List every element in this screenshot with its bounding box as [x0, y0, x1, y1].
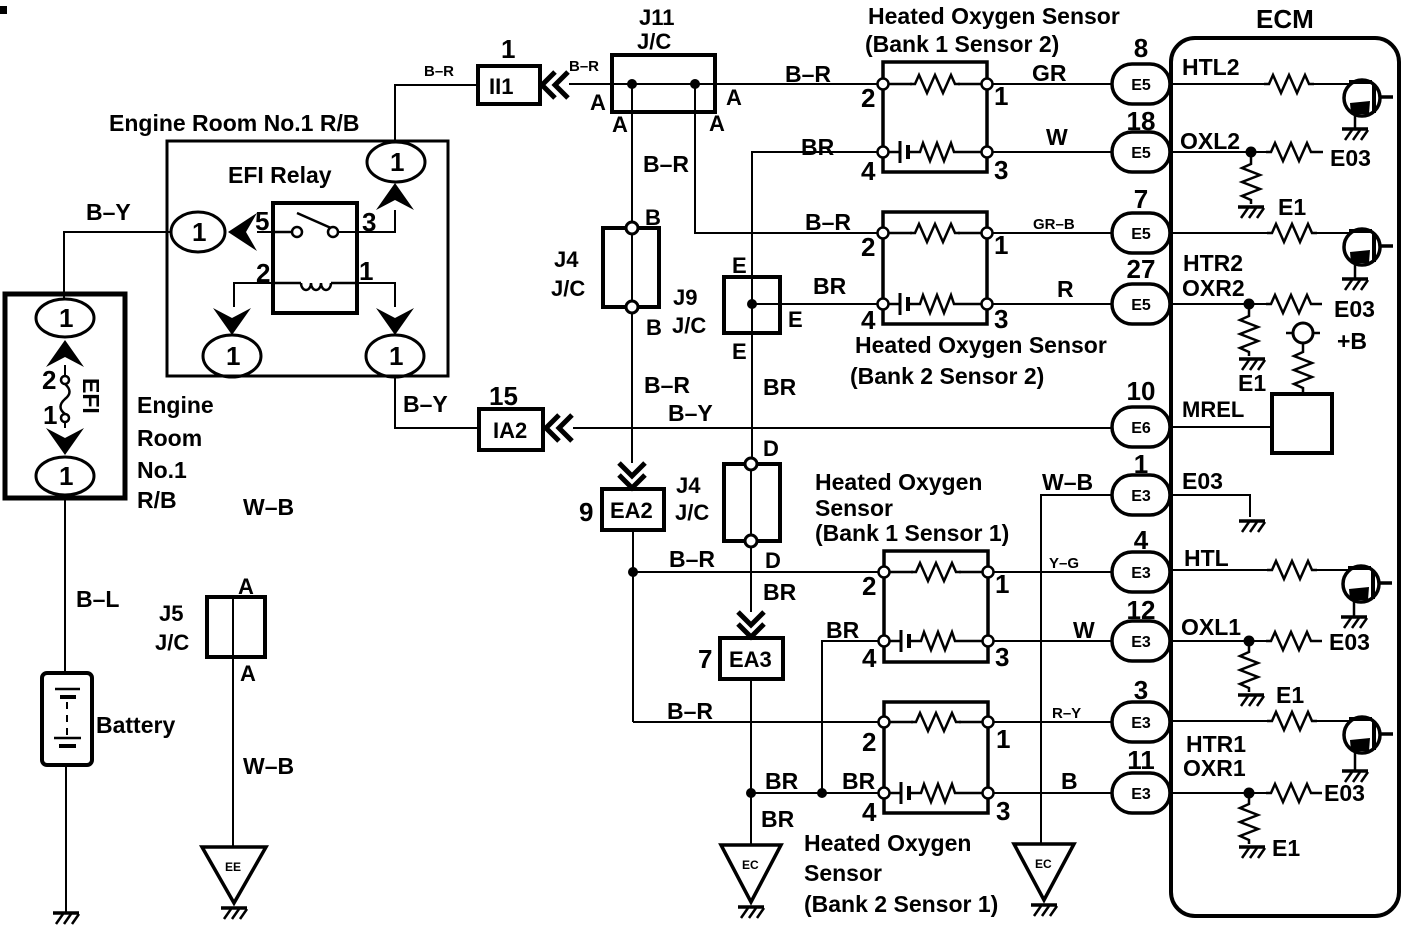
svg-text:R–Y: R–Y — [1052, 705, 1081, 722]
svg-text:W–B: W–B — [1042, 469, 1093, 495]
svg-text:BR: BR — [765, 768, 799, 794]
connector EA3 — [720, 638, 783, 679]
resistor (HTR1) — [1267, 712, 1317, 730]
sensor element (bank2 sensor1) — [890, 792, 900, 795]
svg-text:3: 3 — [994, 155, 1008, 185]
EFI fuse — [64, 365, 66, 376]
svg-text:1: 1 — [501, 34, 515, 64]
ground E1 (OXR1) — [1239, 847, 1265, 858]
svg-text:B: B — [645, 205, 661, 230]
svg-text:7: 7 — [1134, 184, 1148, 214]
svg-text:J4: J4 — [676, 473, 701, 498]
svg-text:J/C: J/C — [675, 500, 709, 525]
junction dot (OXR1) — [1244, 788, 1255, 799]
relay switch contacts — [273, 231, 292, 234]
svg-text:2: 2 — [861, 83, 875, 113]
svg-text:Heated Oxygen: Heated Oxygen — [815, 469, 982, 495]
transistor (HTL2 driver) — [1344, 80, 1393, 116]
wire relay pin3 up to oval — [338, 210, 395, 232]
EFI relay body — [273, 203, 357, 313]
svg-text:E1: E1 — [1238, 370, 1266, 396]
pull resistor (OXL1 to E1) — [1248, 641, 1251, 648]
resistor (OXL2) — [1266, 143, 1316, 161]
svg-text:ECM: ECM — [1256, 4, 1314, 34]
wire BR branch up to bank1 sensor1 pin4 — [822, 641, 884, 793]
E03 circuit: wire pin1 to ground — [1170, 495, 1250, 517]
ECM block — [1171, 38, 1399, 916]
svg-text:1: 1 — [59, 303, 73, 333]
junction dot (J11 left) — [627, 79, 637, 89]
resistor (HTR2) — [1267, 224, 1317, 242]
wire B-R II1 to bank1 sensor2 pin2 — [569, 83, 883, 85]
connector IA2 — [479, 409, 543, 450]
OXL1 circuit: wire pin12 — [1170, 640, 1266, 642]
junction dot (J9) — [747, 299, 757, 309]
svg-text:1: 1 — [1134, 449, 1148, 479]
svg-text:8: 8 — [1134, 33, 1148, 63]
ground (HTL2 driver) — [1342, 129, 1368, 140]
junction dot (OXL1) — [1244, 636, 1255, 647]
svg-text:3: 3 — [996, 796, 1010, 826]
svg-text:B–Y: B–Y — [668, 400, 713, 426]
svg-text:D: D — [763, 436, 779, 461]
junction connector J4 J/C (lower, pin D) — [724, 464, 780, 541]
svg-text:Heated Oxygen Sensor: Heated Oxygen Sensor — [868, 3, 1120, 29]
wire relay pin1 down — [357, 283, 395, 307]
svg-text:HTR1: HTR1 — [1186, 731, 1246, 757]
svg-text:J9: J9 — [673, 285, 697, 310]
pull resistor (OXL2 to E1) — [1250, 152, 1253, 160]
svg-text:B–Y: B–Y — [403, 391, 448, 417]
J5 J/C junction connector — [207, 597, 265, 657]
svg-text:J4: J4 — [554, 247, 579, 272]
svg-text:(Bank 1 Sensor 2): (Bank 1 Sensor 2) — [865, 31, 1059, 57]
ECM pin 3 oval E3 — [1112, 702, 1170, 742]
svg-text:B: B — [1061, 768, 1078, 794]
svg-text:W–B: W–B — [243, 753, 294, 779]
svg-text:J/C: J/C — [637, 29, 671, 54]
svg-text:J5: J5 — [159, 601, 183, 626]
svg-text:HTL: HTL — [1184, 545, 1229, 571]
svg-text:HTR2: HTR2 — [1183, 250, 1243, 276]
arrow down (pin 2) — [213, 308, 251, 335]
connector oval 1 (relay top right) — [367, 142, 425, 182]
pull resistor (OXR2 to E1) — [1248, 304, 1251, 312]
svg-text:EFI Relay: EFI Relay — [228, 162, 332, 188]
transistor (HTR2 driver) — [1344, 229, 1393, 265]
svg-text:A: A — [590, 90, 606, 115]
heated oxygen sensor (Bank 1 Sensor 1) — [884, 551, 988, 662]
svg-text:EA2: EA2 — [610, 498, 653, 523]
ground EC (left) — [721, 845, 781, 902]
ground (battery) — [53, 913, 79, 924]
battery — [42, 673, 92, 765]
pull resistor (OXR1 to E1) — [1248, 793, 1251, 800]
ground (E03 pin1) — [1239, 521, 1265, 532]
arrow down (pin 1) — [376, 308, 414, 335]
resistor (+B to MREL coil) — [1302, 343, 1305, 348]
resistor (HTL2) — [1264, 75, 1314, 93]
svg-text:IA2: IA2 — [493, 418, 527, 443]
svg-text:A: A — [240, 661, 256, 686]
sensor pins (bank2 sensor1) — [879, 717, 890, 728]
svg-text:3: 3 — [1134, 675, 1148, 705]
svg-text:E1: E1 — [1276, 682, 1304, 708]
junction dot (BR branch) — [817, 788, 827, 798]
svg-text:E03: E03 — [1329, 629, 1370, 655]
MREL relay coil box — [1272, 394, 1332, 453]
svg-text:E: E — [788, 307, 803, 332]
svg-text:OXR1: OXR1 — [1183, 755, 1246, 781]
ground EC (right) — [1014, 844, 1074, 900]
ground (HTR1 driver) — [1342, 771, 1368, 782]
svg-text:D: D — [765, 548, 781, 573]
Engine Room No.1 R/B fuse box (left) — [5, 294, 125, 498]
wire BR J9 to bank2 sensor2 pin4 — [780, 303, 883, 305]
svg-text:Engine Room No.1 R/B: Engine Room No.1 R/B — [109, 110, 359, 136]
arrow up (pin 3) — [376, 183, 414, 210]
wire B-L fuse box to battery — [64, 495, 66, 673]
HTL circuit: wire pin4 to driver — [1170, 569, 1267, 571]
arrow down (to bottom oval) — [46, 428, 84, 455]
junction connector J4 J/C (upper) — [603, 228, 659, 307]
svg-text:BR: BR — [763, 374, 797, 400]
OXR2 circuit: wire pin27 — [1170, 303, 1266, 305]
wire BR J4 D down to EA3 — [750, 547, 752, 612]
svg-text:4: 4 — [862, 797, 877, 827]
svg-text:EA3: EA3 — [729, 647, 772, 672]
svg-text:(Bank 1 Sensor 1): (Bank 1 Sensor 1) — [815, 520, 1009, 546]
ECM pin 1 oval E3 — [1112, 475, 1170, 515]
svg-text:OXL2: OXL2 — [1180, 128, 1240, 154]
svg-text:2: 2 — [862, 571, 876, 601]
svg-text:18: 18 — [1127, 106, 1156, 136]
svg-text:(Bank 2 Sensor 1): (Bank 2 Sensor 1) — [804, 891, 998, 917]
svg-text:E3: E3 — [1131, 786, 1151, 803]
svg-text:E3: E3 — [1131, 634, 1151, 651]
resistor (OXL1) — [1266, 632, 1316, 650]
svg-text:GR–B: GR–B — [1033, 216, 1075, 233]
svg-text:J11: J11 — [639, 5, 675, 30]
svg-text:A: A — [612, 112, 628, 137]
svg-text:W: W — [1046, 124, 1068, 150]
double arrow down (EA2) — [619, 463, 645, 488]
svg-text:B–R: B–R — [785, 61, 831, 87]
ground EE — [202, 847, 266, 903]
wire battery to ground — [65, 765, 67, 912]
svg-text:BR: BR — [813, 273, 847, 299]
heater resistor (bank1 sensor1) — [911, 563, 961, 581]
heated oxygen sensor (Bank 2 Sensor 1) — [884, 702, 988, 813]
wire B-Y from EFI relay left pin to fuse box — [64, 232, 171, 300]
wire B-R EA2 to sensors — [632, 530, 634, 722]
sensor pins (bank2 sensor2) — [878, 228, 889, 239]
wire relay pin5 to oval — [257, 231, 291, 233]
wire GR-B pin1 to ECM pin 7 — [992, 232, 1112, 234]
svg-text:3: 3 — [994, 304, 1008, 334]
resistor (OXR1) — [1266, 784, 1316, 802]
svg-text:BR: BR — [763, 579, 797, 605]
svg-text:Sensor: Sensor — [815, 495, 893, 521]
arrow left (pin 5) — [228, 213, 257, 251]
svg-text:(Bank 2 Sensor 2): (Bank 2 Sensor 2) — [850, 363, 1044, 389]
sensor element (bank1 sensor2) — [889, 151, 899, 154]
svg-text:4: 4 — [862, 643, 877, 673]
svg-text:W: W — [1073, 617, 1095, 643]
wire B-R J4 down to EA2 — [631, 313, 633, 463]
sensor element (bank1 sensor1) — [890, 640, 900, 643]
sensor pins (bank1 sensor2) — [878, 79, 889, 90]
svg-text:3: 3 — [995, 642, 1009, 672]
HTR1 circuit: wire pin3 to driver — [1170, 720, 1267, 722]
connector oval 1 (fuse box top) — [36, 299, 94, 337]
svg-text:2: 2 — [42, 365, 56, 395]
connector II1 — [478, 66, 540, 104]
svg-text:R/B: R/B — [137, 487, 177, 513]
heated oxygen sensor (Bank 2 Sensor 2) — [883, 212, 987, 324]
svg-text:2: 2 — [861, 232, 875, 262]
ground (HTR2 driver) — [1342, 279, 1368, 290]
svg-text:Y–G: Y–G — [1049, 555, 1079, 572]
relay coil — [273, 282, 301, 285]
svg-text:R: R — [1057, 276, 1074, 302]
svg-text:OXL1: OXL1 — [1181, 614, 1241, 640]
resistor (HTL) — [1267, 561, 1317, 579]
svg-text:E03: E03 — [1182, 468, 1223, 494]
MREL circuit: wire pin10 — [1170, 426, 1272, 428]
svg-text:E3: E3 — [1131, 715, 1151, 732]
svg-text:Battery: Battery — [96, 712, 175, 738]
svg-text:W–B: W–B — [243, 494, 294, 520]
sensor pins (bank1 sensor1) — [879, 567, 890, 578]
transistor (HTR1 driver) — [1344, 717, 1393, 753]
svg-text:B–R: B–R — [669, 546, 715, 572]
heated oxygen sensor (Bank 1 Sensor 2) — [883, 62, 987, 172]
svg-text:E03: E03 — [1334, 296, 1375, 322]
ECM pin 4 oval E3 — [1112, 552, 1170, 592]
svg-text:Engine: Engine — [137, 392, 214, 418]
svg-text:2: 2 — [862, 727, 876, 757]
svg-text:12: 12 — [1127, 595, 1156, 625]
connector oval 1 (fuse box bottom) — [36, 457, 94, 495]
HTR2 circuit: wire pin7 to driver — [1170, 232, 1267, 234]
arrow up (into oval) — [46, 340, 84, 367]
svg-text:E5: E5 — [1131, 297, 1151, 314]
svg-text:BR: BR — [826, 617, 860, 643]
svg-text:B–R: B–R — [667, 698, 713, 724]
sensor element (bank2 sensor2) — [889, 303, 899, 306]
svg-text:1: 1 — [59, 461, 73, 491]
svg-text:E: E — [732, 339, 747, 364]
HTL2 circuit: wire pin8 to driver — [1170, 83, 1264, 85]
connector oval 1 (relay bottom right) — [366, 335, 424, 377]
svg-text:E3: E3 — [1131, 488, 1151, 505]
wire B-R J11 left dot down to J4 — [631, 84, 633, 223]
double arrow (IA2) — [546, 415, 572, 441]
svg-text:E1: E1 — [1278, 194, 1306, 220]
wire Y-G pin1 to ECM pin 4 — [993, 571, 1112, 573]
svg-text:GR: GR — [1032, 60, 1067, 86]
wire BR J9 down to J4 D — [751, 333, 753, 459]
svg-text:E03: E03 — [1330, 145, 1371, 171]
wire GR pin1 to ECM pin 8 — [992, 83, 1112, 85]
Engine Room No.1 R/B relay box — [167, 141, 448, 376]
wire R pin3 to ECM pin 27 — [992, 303, 1112, 305]
svg-text:1: 1 — [994, 81, 1008, 111]
heater resistor (bank1 sensor2) — [910, 75, 960, 93]
svg-text:E6: E6 — [1131, 420, 1151, 437]
junction dot (BR node) — [746, 788, 756, 798]
ECM pin 12 oval E3 — [1112, 621, 1170, 661]
svg-text:Heated Oxygen Sensor: Heated Oxygen Sensor — [855, 332, 1107, 358]
heater resistor (bank2 sensor1) — [911, 713, 961, 731]
svg-text:15: 15 — [489, 381, 518, 411]
heater resistor (bank2 sensor2) — [910, 224, 960, 242]
svg-text:J/C: J/C — [155, 630, 189, 655]
svg-text:9: 9 — [579, 497, 593, 527]
ECM pin 11 oval E3 — [1112, 773, 1170, 813]
ECM pin 7 oval E5 — [1112, 213, 1170, 253]
svg-text:1: 1 — [996, 724, 1010, 754]
svg-text:1: 1 — [192, 217, 206, 247]
ECM pin 10 oval E6 — [1112, 407, 1170, 447]
OXL2 circuit: wire pin18 — [1170, 151, 1266, 153]
svg-text:BR: BR — [761, 806, 795, 832]
OXR1 circuit: wire pin11 — [1170, 792, 1266, 794]
svg-text:EC: EC — [742, 858, 759, 872]
double arrow (II1) — [542, 72, 568, 98]
wire B-Y IA2 to ECM MREL pin — [573, 427, 1112, 429]
svg-text:1: 1 — [994, 230, 1008, 260]
svg-text:J/C: J/C — [672, 313, 706, 338]
svg-text:BR: BR — [801, 134, 835, 160]
ECM pin 18 oval E5 — [1112, 132, 1170, 172]
svg-text:A: A — [726, 85, 742, 110]
svg-text:E1: E1 — [1272, 835, 1300, 861]
svg-text:Heated Oxygen: Heated Oxygen — [804, 830, 971, 856]
svg-text:4: 4 — [861, 156, 876, 186]
wire W-B ECM pin1 to EC ground — [1041, 495, 1112, 844]
svg-text:B–R: B–R — [424, 63, 454, 80]
junction dot (OXR2) — [1244, 299, 1255, 310]
svg-text:J/C: J/C — [551, 276, 585, 301]
wire B-Y relay to IA2 — [395, 377, 479, 428]
svg-text:Sensor: Sensor — [804, 860, 882, 886]
double arrow down (EA3) — [738, 612, 764, 637]
ground E1 (OXL2) — [1238, 207, 1264, 218]
wire BR node to bank2 sensor1 pin4 — [751, 792, 884, 794]
svg-text:10: 10 — [1127, 376, 1156, 406]
svg-text:E03: E03 — [1324, 780, 1365, 806]
svg-text:B–L: B–L — [76, 586, 119, 612]
ground E1 (OXR2) — [1239, 359, 1265, 370]
svg-text:Room: Room — [137, 425, 202, 451]
wire B-R relay top oval to II1 — [395, 85, 478, 142]
svg-text:7: 7 — [698, 644, 712, 674]
svg-text:B: B — [646, 315, 662, 340]
svg-text:1: 1 — [995, 569, 1009, 599]
svg-text:A: A — [709, 111, 725, 136]
svg-text:EC: EC — [1035, 857, 1052, 871]
ECM pin 8 oval E5 — [1112, 64, 1170, 104]
svg-text:27: 27 — [1127, 254, 1156, 284]
svg-text:1: 1 — [359, 256, 373, 286]
svg-text:BR: BR — [842, 768, 876, 794]
junction dot (B-R node) — [628, 567, 638, 577]
ground (HTL driver) — [1341, 617, 1367, 628]
svg-text:HTL2: HTL2 — [1182, 54, 1240, 80]
svg-text:No.1: No.1 — [137, 457, 187, 483]
svg-text:E: E — [732, 253, 747, 278]
wire B pin3 to ECM pin 11 — [993, 792, 1112, 794]
connector EA2 — [602, 489, 664, 530]
svg-text:OXR2: OXR2 — [1182, 275, 1245, 301]
svg-text:4: 4 — [1134, 525, 1149, 555]
svg-text:A: A — [238, 574, 254, 599]
svg-text:E5: E5 — [1131, 145, 1151, 162]
svg-text:B–R: B–R — [805, 209, 851, 235]
ECM pin 27 oval E5 — [1112, 284, 1170, 324]
junction connector J11 J/C — [612, 55, 715, 112]
svg-text:MREL: MREL — [1182, 397, 1244, 422]
svg-text:EE: EE — [225, 860, 241, 874]
wire W-B J5 to EE ground — [232, 657, 234, 847]
resistor (OXR2) — [1266, 295, 1316, 313]
svg-text:B–R: B–R — [644, 372, 690, 398]
ground E1 (OXL1) — [1238, 695, 1264, 706]
connector oval 1 (relay bottom left) — [203, 335, 261, 377]
wire W pin3 to ECM pin 12 — [993, 640, 1112, 642]
svg-text:1: 1 — [43, 400, 57, 430]
svg-text:EFI: EFI — [78, 378, 104, 414]
connector oval 1 (relay left) — [171, 212, 225, 252]
wire B-R to bank2 sensor1 pin2 — [633, 721, 884, 723]
wire relay pin2 down — [234, 283, 273, 307]
svg-text:1: 1 — [389, 341, 403, 371]
junction dot (J11 right) — [690, 79, 700, 89]
svg-text:+B: +B — [1337, 328, 1367, 354]
svg-text:B–R: B–R — [569, 58, 599, 75]
wire EA3 down to EC ground — [750, 679, 752, 845]
junction dot (OXL2) — [1246, 147, 1257, 158]
wire B-R node to bank1 sensor1 pin2 — [633, 571, 884, 573]
svg-text:1: 1 — [390, 147, 404, 177]
svg-text:4: 4 — [861, 305, 876, 335]
scan artifact top-left corner — [0, 6, 7, 14]
wire J11 right dot to bank2 sensor2 pin2 — [695, 84, 883, 233]
junction connector J9 J/C — [724, 277, 780, 333]
svg-text:II1: II1 — [489, 74, 513, 99]
wire W pin3 to ECM pin 18 — [992, 151, 1112, 153]
power +B symbol — [1293, 323, 1313, 343]
wire BR bank1 sensor2 pin4 to J9 — [752, 152, 878, 278]
svg-text:E5: E5 — [1131, 77, 1151, 94]
svg-text:1: 1 — [226, 341, 240, 371]
svg-text:B–R: B–R — [643, 151, 689, 177]
wire R-Y pin1 to ECM pin 3 — [993, 721, 1112, 723]
svg-text:E5: E5 — [1131, 226, 1151, 243]
svg-text:B–Y: B–Y — [86, 199, 131, 225]
svg-text:E3: E3 — [1131, 565, 1151, 582]
transistor (HTL driver) — [1343, 566, 1392, 602]
svg-text:11: 11 — [1127, 745, 1155, 775]
